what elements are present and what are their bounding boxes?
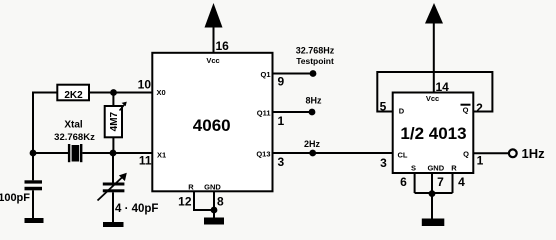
wire: D to Q-bar feedback loop: [377, 72, 492, 112]
svg-text:6: 6: [400, 175, 407, 189]
svg-text:1/2 4013: 1/2 4013: [400, 124, 466, 143]
wire: crystal left lead: [33, 152, 68, 154]
svg-text:3: 3: [278, 155, 285, 169]
svg-text:Vcc: Vcc: [206, 56, 219, 65]
wire: 2K2 right lead to X0: [89, 92, 152, 94]
svg-text:3: 3: [380, 156, 387, 170]
svg-text:2Hz: 2Hz: [304, 139, 321, 149]
node: X0 / 4M7 junction: [110, 89, 117, 96]
node: R/GND junction: [211, 207, 218, 214]
svg-text:GND: GND: [204, 183, 221, 192]
wire: C1 bottom lead: [32, 190, 34, 218]
svg-text:R: R: [188, 183, 194, 192]
svg-text:Q1: Q1: [260, 70, 270, 79]
capacitor C1 100pF: [25, 180, 43, 190]
svg-text:4060: 4060: [193, 116, 231, 135]
power arrow (U2 Vcc): [425, 3, 443, 24]
wire: crystal right lead to X1: [82, 152, 152, 154]
node: X1 / 4M7 / trimmer junction: [110, 150, 117, 157]
trimmer arrow on C2: [98, 173, 127, 201]
ground (C2): [103, 222, 124, 227]
svg-text:32.768Hz: 32.768Hz: [296, 46, 335, 56]
wire: Q13 pin 3 to CL pin 3: [273, 152, 393, 154]
svg-text:8: 8: [217, 195, 224, 209]
svg-text:100pF: 100pF: [0, 192, 30, 204]
svg-text:10: 10: [138, 78, 152, 92]
wire: Vcc supply to pin 16: [213, 26, 215, 53]
svg-text:Q13: Q13: [256, 150, 270, 159]
svg-text:1Hz: 1Hz: [522, 146, 546, 161]
ground (C1): [25, 218, 44, 223]
svg-text:11: 11: [139, 154, 152, 168]
svg-text:1: 1: [278, 114, 285, 128]
capacitor C2 trimmer 4-40pF: [103, 183, 125, 193]
svg-text:Testpoint: Testpoint: [296, 56, 334, 66]
node: crystal left junction: [30, 150, 37, 157]
wire: Vcc supply to pin 14: [433, 22, 435, 93]
wire: pin 7 ground lead: [431, 173, 433, 194]
svg-text:Q11: Q11: [257, 109, 271, 118]
power arrow (U1 Vcc): [205, 3, 223, 28]
output terminal 1Hz: [509, 149, 517, 157]
pin name Q-bar: [461, 105, 471, 115]
svg-text:5: 5: [380, 100, 387, 114]
wire: 4M7 bottom lead: [112, 137, 114, 153]
svg-text:4M7: 4M7: [109, 111, 120, 131]
svg-text:Q: Q: [463, 106, 469, 115]
resistor R1 2K2: [57, 85, 89, 102]
wire: C2 top lead: [112, 153, 114, 183]
wire: pin 4 reset strap: [452, 173, 454, 193]
svg-text:4 · 40pF: 4 · 40pF: [115, 203, 158, 215]
IC U2 1/2 4013 body: [393, 93, 474, 174]
svg-text:Q: Q: [463, 150, 469, 159]
wire: Q11 pin 1 stub: [273, 111, 313, 113]
wire: U2 ground lead: [431, 194, 433, 219]
IC U1 4060 body: [152, 53, 272, 192]
svg-text:X1: X1: [157, 151, 166, 160]
wire: Q output pin 1: [473, 152, 508, 154]
svg-text:8Hz: 8Hz: [305, 96, 322, 106]
svg-text:X0: X0: [157, 88, 166, 97]
wire: left vertical feedback bus: [32, 93, 34, 154]
resistor R2 4M7: [105, 106, 122, 137]
wire: pin 6 set strap: [414, 173, 416, 193]
svg-text:14: 14: [436, 80, 450, 94]
svg-text:7: 7: [437, 175, 444, 189]
wire: pin 8 ground lead: [213, 191, 215, 218]
wire: C2 bottom lead: [112, 192, 114, 222]
svg-text:Vcc: Vcc: [426, 94, 439, 103]
ground (U1): [204, 218, 224, 225]
wire: C1 top lead: [32, 153, 34, 180]
wire: pin 12 reset strap: [194, 191, 214, 210]
crystal X1: [68, 144, 83, 162]
svg-text:Xtal: Xtal: [64, 120, 83, 131]
testpoint node 8Hz: [309, 109, 316, 116]
node: ground junction (U2): [429, 190, 436, 197]
svg-text:2: 2: [476, 101, 483, 115]
svg-text:32.768Kz: 32.768Kz: [54, 132, 95, 143]
svg-text:2K2: 2K2: [64, 90, 83, 101]
svg-text:CL: CL: [398, 151, 408, 160]
wire: Q1 pin 9 stub: [273, 73, 314, 75]
wire: 2K2 left lead: [32, 92, 57, 94]
svg-text:R: R: [451, 164, 457, 173]
svg-text:GND: GND: [427, 164, 444, 173]
svg-text:12: 12: [178, 195, 192, 209]
svg-text:1: 1: [477, 154, 484, 168]
wire: 4M7 top lead: [112, 93, 114, 107]
svg-text:16: 16: [216, 39, 230, 53]
svg-text:9: 9: [278, 75, 285, 89]
trimmer arrow on 4M7: [120, 102, 127, 111]
svg-text:S: S: [411, 164, 416, 173]
testpoint node 32.768Hz: [310, 70, 317, 77]
svg-text:4: 4: [458, 175, 465, 189]
wire: S/GND/R strap bus: [415, 192, 453, 194]
node: 2Hz testpoint: [309, 150, 316, 157]
svg-text:D: D: [399, 107, 405, 116]
ground (U2): [422, 219, 445, 227]
